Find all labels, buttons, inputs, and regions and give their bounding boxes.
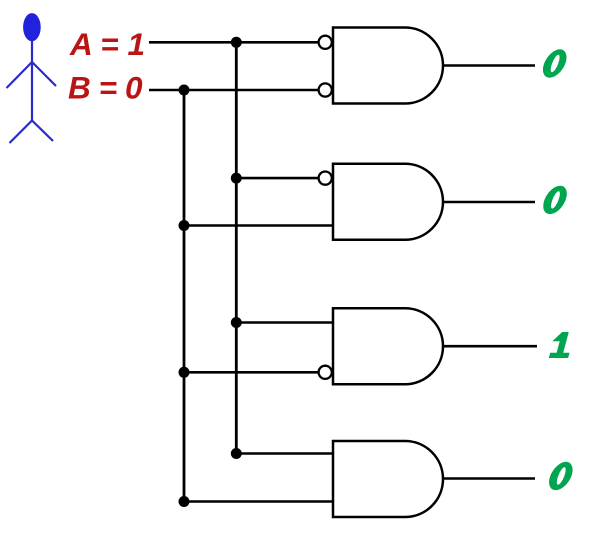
junction dot B to gate3 [179,367,190,378]
wire A to gate2 top [236,177,318,180]
person figure (input source) [7,13,57,143]
wire B horizontal [149,89,319,92]
wire B vertical bus [183,90,186,502]
and-gate U4 (no inversion) [333,441,443,517]
inverting bubble U3 input B [319,366,332,379]
output wire U2 [443,201,535,204]
junction dot B bus top [179,85,190,96]
junction dot B to gate4 [179,496,190,507]
junction dot A to gate3 [231,317,242,328]
svg-text:A = 1: A = 1 [69,26,145,62]
junction dot B to gate2 [179,220,190,231]
junction dot A to gate4 [231,448,242,459]
wire B to gate3 bottom [184,371,319,374]
output label U4 value 0 [545,462,577,490]
svg-text:B = 0: B = 0 [68,70,143,106]
inverting bubble U2 input A [319,172,332,185]
output label U2 value 0 [539,186,571,214]
junction dot A to gate2 [231,173,242,184]
junction dot A bus top [231,37,242,48]
output label U3 value 1 [548,332,575,358]
wire B to gate2 bottom [184,224,334,227]
and-gate U2 (top input inverted) [333,164,443,240]
output wire U1 [443,64,535,67]
and-gate U3 (bottom input inverted) [333,308,443,384]
wire A to gate4 top [236,452,334,455]
inverting bubble U1 input B [319,83,332,96]
output wire U4 [443,477,535,480]
wire B to gate4 bottom [184,500,334,503]
output label U1 value 0 [539,49,571,77]
output wire U3 [443,345,537,348]
wire A to gate3 top [236,321,334,324]
and-gate U1 (both inputs inverted) [333,28,443,104]
inverting bubble U1 input A [319,36,332,49]
wire A vertical bus [235,42,238,453]
wire A horizontal [149,41,319,44]
